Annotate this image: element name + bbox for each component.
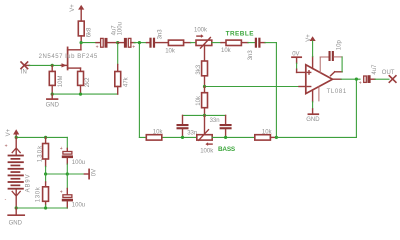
svg-text:+: + <box>132 45 135 51</box>
wire mid rail <box>46 173 85 175</box>
svg-text:130k: 130k <box>37 145 43 163</box>
svg-text:6k8: 6k8 <box>87 27 93 37</box>
wire 10k to treble pot <box>191 42 197 44</box>
ground GND (battery) <box>8 208 24 215</box>
capacitor C2 100u <box>118 38 136 51</box>
svg-text:GND: GND <box>46 102 60 108</box>
svg-text:100k: 100k <box>200 149 214 155</box>
ground GND (op-amp) <box>308 113 318 115</box>
node 33n left bottom <box>181 136 184 139</box>
node drain <box>80 41 83 44</box>
resistor R4 10k (treble in) <box>168 40 190 45</box>
svg-text:4u7: 4u7 <box>111 25 117 36</box>
potentiometer P2 BASS 100k <box>197 130 212 146</box>
svg-text:TREBLE: TREBLE <box>226 31 255 38</box>
wire C8 to OUT <box>375 78 389 80</box>
node battery plus <box>15 136 18 139</box>
potentiometer P1 TREBLE 100k <box>196 34 212 61</box>
wire R5 to 3n3 <box>248 42 255 44</box>
node output junction <box>355 78 358 81</box>
capacitor C7 10p <box>329 51 343 61</box>
svg-text:V+: V+ <box>70 4 76 12</box>
svg-text:BASS: BASS <box>218 146 236 153</box>
supply 0V (op-amp +input) <box>292 57 301 63</box>
svg-text:100u: 100u <box>118 22 124 35</box>
svg-text:TL081: TL081 <box>327 89 347 95</box>
wire output <box>341 78 360 80</box>
svg-text:100u: 100u <box>72 203 85 209</box>
svg-text:3n3: 3n3 <box>158 29 164 40</box>
svg-text:0V: 0V <box>91 169 97 176</box>
node minus-input junction <box>203 85 206 88</box>
resistor 10M <box>49 65 55 94</box>
supply V+ (JFET) <box>78 5 84 21</box>
connector IN (X pinhead) <box>21 62 30 69</box>
wire V- to GND <box>312 102 314 114</box>
resistor R9 10k (bass out) <box>255 135 277 140</box>
wire ground rail left <box>52 93 118 95</box>
svg-text:AB9V: AB9V <box>25 174 31 192</box>
svg-text:10k: 10k <box>165 48 176 54</box>
wire 0V to +input <box>297 63 306 72</box>
svg-text:+: + <box>5 144 8 150</box>
node battery minus <box>15 206 18 209</box>
resistor R11 130k (lower) <box>43 174 49 208</box>
resistor R8 10k (bass in) <box>146 135 162 140</box>
svg-text:+: + <box>96 45 99 51</box>
svg-text:V+: V+ <box>6 128 12 136</box>
svg-text:V+: V+ <box>306 34 312 42</box>
wire bass wiper stem <box>204 115 206 134</box>
svg-text:10k: 10k <box>262 129 273 135</box>
wire bottom rail <box>16 207 67 209</box>
node 33n right bottom <box>224 136 227 139</box>
wire feedback to output <box>276 79 356 137</box>
node C1/C2/47k junction <box>116 41 119 44</box>
capacitor C9 100u (upper) <box>60 146 73 174</box>
svg-text:100u: 100u <box>72 160 85 166</box>
capacitor C4 3n3 (treble) <box>255 38 265 48</box>
resistor R5 10k (treble out) <box>221 40 248 45</box>
op-amp U1 TL081 <box>306 57 342 102</box>
connector OUT (X pinhead) <box>389 76 396 83</box>
transistor Q1 JFET <box>61 43 81 72</box>
supply V+ (op-amp) <box>310 36 316 56</box>
svg-text:0V: 0V <box>292 51 299 57</box>
svg-text:10p: 10p <box>337 40 343 51</box>
wire to op-amp minus input <box>205 86 300 88</box>
capacitor C6 33n (right) <box>220 115 232 137</box>
resistor R10 130k (upper) <box>43 137 49 174</box>
node 130k top <box>44 136 47 139</box>
node gate/10M junction <box>51 64 54 67</box>
wire 3n3 to right column <box>265 43 276 138</box>
svg-text:GND: GND <box>306 117 320 123</box>
node 130k mid left <box>44 172 47 175</box>
resistor 47k <box>115 43 121 95</box>
node bass wiper junction <box>203 114 206 117</box>
resistor R6 3k3 (treble wiper) <box>202 61 208 87</box>
node feedback junction <box>275 136 278 139</box>
svg-text:10k: 10k <box>153 129 164 135</box>
svg-text:2k2: 2k2 <box>85 77 91 87</box>
resistor 2k2 <box>78 71 84 94</box>
capacitor C10 100u (lower) <box>60 174 73 208</box>
resistor R7 10k (bass wiper) <box>202 87 208 116</box>
svg-text:47k: 47k <box>123 76 129 87</box>
capacitor C1 4u7 <box>96 38 118 51</box>
svg-text:IN: IN <box>21 70 27 76</box>
wire C2 to 3n3 <box>134 42 147 44</box>
lead 6k8 to drain node <box>80 36 82 43</box>
wire tone input down to bass <box>138 43 140 138</box>
svg-text:130k: 130k <box>35 186 41 202</box>
svg-text:2N5457 lub BF245: 2N5457 lub BF245 <box>39 54 98 60</box>
resistor 6k8 <box>78 21 84 36</box>
node 10M bottom <box>51 93 54 96</box>
svg-text:10k: 10k <box>221 48 232 54</box>
wire 10p to comp pin <box>341 57 343 72</box>
svg-text:10M: 10M <box>58 76 64 88</box>
svg-text:+: + <box>359 81 362 87</box>
node 2k2 bottom <box>79 93 82 96</box>
supply 0V (mid rail) <box>84 169 89 178</box>
capacitor C3 3n3 <box>147 38 169 48</box>
wire pot to R5 <box>212 42 221 44</box>
wire minus input pin <box>299 86 306 88</box>
svg-text:GND: GND <box>9 220 23 226</box>
svg-text:3k3: 3k3 <box>196 64 202 74</box>
node tone-input junction <box>138 41 141 44</box>
capacitor C5 33n (left) <box>177 115 189 137</box>
svg-text:33n: 33n <box>187 131 197 137</box>
battery G1 <box>5 137 24 208</box>
svg-text:3n3: 3n3 <box>248 50 254 61</box>
ground GND (input stage) <box>47 94 58 99</box>
svg-text:33n: 33n <box>210 118 220 124</box>
wire IN to gate <box>30 64 62 66</box>
wire bass rail right <box>212 136 255 138</box>
wire V+ rail (battery top) <box>16 137 67 148</box>
wire 33n top rail <box>183 114 226 116</box>
svg-text:4u7: 4u7 <box>372 64 378 75</box>
capacitor C8 4u7 (output) <box>359 75 375 86</box>
svg-text:-: - <box>5 197 7 203</box>
wire bass rail left <box>139 136 196 138</box>
node 100u mid <box>66 172 69 175</box>
svg-text:10k: 10k <box>196 95 202 106</box>
supply V+ (battery) <box>13 129 19 137</box>
wire drain node to C1 <box>81 42 98 44</box>
svg-text:OUT: OUT <box>382 70 395 76</box>
svg-text:100k: 100k <box>194 27 208 33</box>
node 130k bottom <box>44 206 47 209</box>
